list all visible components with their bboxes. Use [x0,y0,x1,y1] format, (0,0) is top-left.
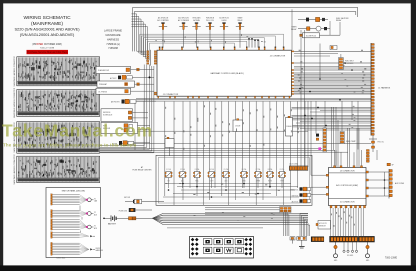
component L5 relay [112,141,150,146]
wire switch links [80,206,82,233]
svg-text:AUX CONN: AUX CONN [395,182,405,185]
bottom connector strip A [330,236,358,242]
U2 right pins [366,171,368,197]
svg-text:J1 CONNECTOR: J1 CONNECTOR [163,94,179,96]
relay K7 [124,197,164,204]
svg-text:PREHEAT: PREHEAT [99,83,107,86]
svg-text:FUEL PUMP: FUEL PUMP [346,141,356,143]
purchase banner [27,50,69,54]
J3 vertical feed strip [366,150,369,163]
svg-text:(PRINTED OCTOBER 2008): (PRINTED OCTOBER 2008) [32,44,62,46]
wire bundle tail [167,227,263,229]
wire verticals into U2 top [335,150,362,166]
svg-text:BATTERY: BATTERY [108,222,117,225]
relay F8 [266,168,273,188]
bottom connector strip C [311,237,324,242]
svg-text:SWITCH PANEL (DELUXE): SWITCH PANEL (DELUXE) [62,190,86,193]
svg-text:LH/RH: LH/RH [222,20,228,22]
svg-text:HARNESS: HARNESS [107,38,119,41]
C1 lower stubs [369,136,377,153]
wire long horizontal bus mid page [100,131,371,152]
svg-text:SCHEDULE: SCHEDULE [103,115,113,117]
relay F1 [165,168,172,188]
relay F9 [278,168,285,188]
wire bus under U1 [136,98,371,101]
svg-text:RELAY: RELAY [336,19,342,22]
component box L4 [101,122,150,133]
relay F3 [193,168,200,188]
svg-text:FUSE LINK: FUSE LINK [119,210,128,212]
J3 horizontal connector strip [289,166,308,171]
starter relay label mid right [330,46,337,50]
legend diamonds left [191,238,199,256]
ground lead G2 [366,242,371,262]
svg-text:FUEL SHUT: FUEL SHUT [345,61,354,63]
C2 harness strip [389,169,392,199]
relay F4 [208,168,215,188]
svg-text:7158644 (a): 7158644 (a) [106,43,120,46]
svg-text:BKT SOL: BKT SOL [292,195,299,197]
U1 J2 top edge pins [159,47,285,50]
svg-text:WIRING SCHEMATIC: WIRING SCHEMATIC [23,15,71,21]
svg-text:FRONT: FRONT [96,248,101,250]
bottom connector strip B [358,236,374,242]
junction dots right bus [299,62,353,126]
U1 left edge pins [154,51,156,95]
wire extra right horizontals [294,54,371,131]
wire U2 to C2 [368,172,389,196]
inline device box D2 [286,116,293,136]
component box L1c [97,81,154,87]
ground lead G1 [334,242,339,262]
relay stack R1 [290,187,310,191]
component L2 relay [111,99,156,103]
legend box [190,237,254,259]
svg-text:LARGE FRAME: LARGE FRAME [104,30,122,33]
svg-text:GATEWAY CONTROLLER (BLACK): GATEWAY CONTROLLER (BLACK) [210,72,244,75]
svg-text:MAINFRAME: MAINFRAME [106,34,121,37]
svg-text:Purchase Service Manual Click: Purchase Service Manual Click Here [27,51,68,54]
fuel shutoff relay [298,17,349,22]
svg-text:DIODE: DIODE [235,126,240,128]
temp sensor T2 [290,237,295,244]
relay stack R2 [292,193,311,197]
wire U2 left stubs [311,175,326,194]
wire labels fuse area [165,183,280,195]
relay K2 [178,17,189,48]
relay K5 [219,18,229,48]
relay F7 [254,168,261,188]
wire labels verticals below U1 [165,105,298,150]
battery inline connector [129,217,136,220]
component L1b sensor [110,75,154,80]
switch bundle 3 [51,219,98,230]
wire vertical risers right [292,9,358,175]
hydraulic filter label box [316,221,331,230]
fuse relay center box [156,155,312,205]
glow plug module [300,21,340,38]
svg-text:7000-13WE: 7000-13WE [385,257,398,259]
svg-text:TRHD SOL: TRHD SOL [290,189,298,191]
svg-text:TakeManual.com: TakeManual.com [2,121,153,141]
svg-text:The rest pages are hidden, ple: The rest pages are hidden, please purcha… [3,143,137,148]
switch panel box [46,188,101,258]
svg-text:OIL PRESS: OIL PRESS [98,91,108,93]
svg-text:MAINFRAME HARNESS CONNECTOR: MAINFRAME HARNESS CONNECTOR [13,55,16,86]
wire labels bundle [194,212,278,223]
svg-text:71E16 B4L: 71E16 B4L [56,258,65,260]
switch bundle 1 [51,194,97,205]
harness connector column A [147,50,151,66]
legend icon cells [203,239,243,254]
battery B1 [103,215,152,225]
relay K1 [157,17,169,48]
relay F2 [179,168,186,188]
fuel shutoff solenoid mid right [339,54,354,70]
timer relay [291,26,330,31]
svg-text:ACD CONTROLLER (GRAY): ACD CONTROLLER (GRAY) [336,184,358,187]
svg-text:GP: GP [392,164,394,166]
switch bundle 2 [51,210,97,218]
small relay mid [316,134,319,141]
switch bundle 5 [51,242,103,255]
ACD controller U2 [329,168,367,206]
svg-text:FUEL/RUN: FUEL/RUN [206,18,215,20]
connector table 2 [13,87,100,118]
magenta marker [318,147,321,150]
svg-text:KEY SW: KEY SW [124,197,131,199]
wire verticals below U1 [135,102,297,206]
component box L1a [96,66,154,73]
wire staircase fusebox to ACD [205,207,289,236]
wire bundle drop to J5 row [300,214,310,236]
junction dots fuse box [168,183,271,198]
svg-text:SOL GND: SOL GND [347,255,353,257]
component box L1d [96,88,154,94]
relay K4 [206,18,215,48]
wire battery bundle fan [153,213,309,224]
svg-text:SENSOR: SENSOR [319,226,327,228]
svg-text:GLOW PLUG: GLOW PLUG [306,35,317,37]
U2 left pins [326,174,328,195]
glow plug resistor top right [377,150,394,166]
wire labels right bus [298,50,367,128]
legend diamonds right [244,238,252,256]
relay K6 [236,17,244,48]
svg-text:J2 CONNECTOR: J2 CONNECTOR [270,56,286,58]
svg-text:MAINFRAME HARNESS CONNECTOR: MAINFRAME HARNESS CONNECTOR [13,87,16,118]
gateway controller U1 [157,50,291,96]
wire mid horizontal bus east [292,107,372,127]
U1 J1 bottom edge pins [158,96,290,98]
wire top bus [133,7,358,51]
relay F6 [240,168,247,188]
connector table 3 [13,122,100,154]
svg-text:IGN: IGN [167,181,169,183]
sensor symbol under tables area [165,137,174,156]
svg-text:SOLENOID: SOLENOID [345,63,354,65]
inline device box D1 [233,119,243,132]
svg-text:FLASHER SW: FLASHER SW [98,69,109,72]
U2 bottom pins [330,206,366,208]
svg-text:(S/N ASGL20001 AND ABOVE): (S/N ASGL20001 AND ABOVE) [20,32,75,37]
connector table 4 [13,154,100,185]
temp sensor T1 [297,237,307,248]
wire labels top area [155,34,265,43]
inline connector pair [280,207,292,213]
svg-text:MAINFRAME HARNESS CONNECTOR: MAINFRAME HARNESS CONNECTOR [13,154,16,185]
svg-text:C1 HARNESS: C1 HARNESS [378,87,391,90]
U1 right edge pins [292,51,294,95]
svg-text:HORN: HORN [268,181,272,183]
mid cluster connector stack [323,128,326,152]
wire mid bus with J2 drops [140,34,284,60]
svg-text:PWR: PWR [280,181,283,183]
fusible link [119,208,152,212]
component box L3 [101,109,148,122]
relay K3 [192,17,201,48]
svg-text:LIGHT: LIGHT [210,181,214,183]
wire verticals below U2 [331,208,364,236]
relay F5 [222,168,229,188]
svg-text:7000-4 Y 0098: 7000-4 Y 0098 [40,47,55,49]
U2 top pins [334,166,363,168]
wire bus U1 right to C1 strip [294,51,371,94]
svg-text:GLOW PLUG: GLOW PLUG [219,18,229,20]
svg-text:HYD FLTR: HYD FLTR [319,223,328,225]
relay stack R3 [292,199,311,203]
wire verticals mid-right [305,101,359,167]
harness note block [104,30,122,51]
wire left risers continuing down [100,65,154,153]
svg-text:FUSE RELAY CENTER: FUSE RELAY CENTER [133,169,153,172]
C1 harness connector strip [371,43,374,136]
spare pins with junction dots [249,39,258,48]
svg-text:7165288: 7165288 [108,47,118,50]
svg-text:PULL COIL: PULL COIL [206,20,214,22]
svg-text:S220 (S/N ASGK20001 AND ABOVE): S220 (S/N ASGK20001 AND ABOVE) [14,26,80,31]
svg-text:HYD OIL: HYD OIL [378,142,384,144]
switch bundle 4 [51,232,95,238]
fuse labels row [167,180,283,183]
small sensor leads [344,242,357,250]
wire labels ACD verticals [331,211,355,227]
tall connector mid right [340,131,344,143]
wire fuse box internal links [163,184,299,198]
wire left nest bundle upper [131,14,147,60]
svg-text:J4 CONNECTOR: J4 CONNECTOR [340,171,355,173]
svg-text:J5 CONNECTOR: J5 CONNECTOR [340,201,355,203]
connector table 1 [13,55,100,86]
